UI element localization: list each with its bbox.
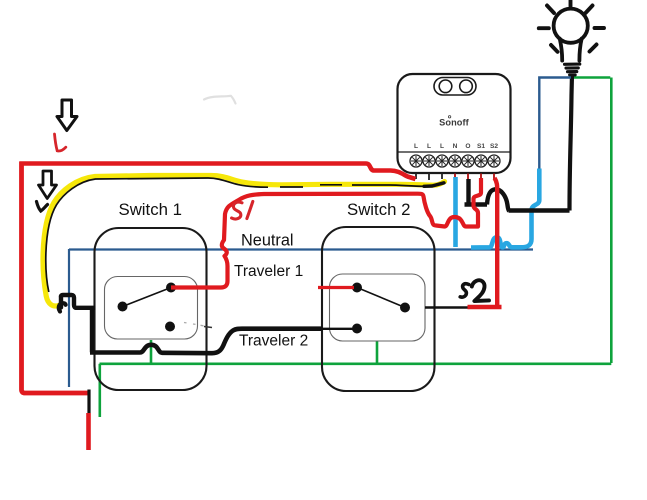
svg-text:Traveler 1: Traveler 1: [234, 263, 303, 280]
wire: black O-output to bulb, vertical from O terminal: [466, 179, 470, 205]
sonoff button circle 1: [439, 80, 452, 93]
wire: red line power border left vertical: [22, 162, 91, 394]
wire: blue neutral run from bulb with hops: [471, 169, 539, 248]
svg-text:L: L: [414, 143, 418, 150]
svg-text:L: L: [427, 143, 431, 150]
switch 2 traveler 1 dot: [352, 283, 362, 293]
arrow pointer 2: [39, 171, 57, 199]
wire: red line power top horizontal to L terminal: [20, 164, 416, 180]
sonoff button circle 2: [460, 80, 473, 93]
svg-text:Switch 1: Switch 1: [119, 200, 182, 219]
wire: neutral bus (navy thin horizontal): [69, 248, 533, 250]
switch box 2 inner plate: [330, 274, 426, 341]
wire: green ground left drop: [99, 364, 102, 417]
wire: black traveler 2 drop: [90, 308, 94, 353]
switch box 1 outer: [95, 228, 207, 390]
wire: red drop bottom left: [86, 413, 91, 450]
switch 2 toggle lever: [357, 288, 405, 308]
wire: yellow line hot with hook: [43, 176, 445, 307]
switch 2 common pole dot: [400, 303, 410, 313]
wire: black tracer along yellow: [46, 178, 268, 292]
wire: red S2 drop from terminal: [495, 178, 498, 306]
switch box 1 inner plate: [105, 277, 198, 340]
wire: black stub bottom left: [87, 390, 90, 414]
wire: switch 2 common to S2 hook (thin black): [425, 306, 468, 308]
wire: black tracer dashes: [280, 185, 342, 187]
sonoff terminal block divider: [399, 151, 511, 153]
wire: black tip of yellow cable: [424, 183, 444, 187]
switch 1 toggle lever: [123, 288, 172, 307]
switch 1 traveler 1 dot: [166, 283, 176, 293]
wire: red S2 hook: [468, 305, 502, 310]
wire: green ground from bulb right: [573, 76, 610, 79]
wire: bulb blue lead (navy thin): [539, 78, 571, 170]
wire: black O-output hop over S2 red: [487, 189, 509, 211]
light bulb icon: [554, 9, 588, 75]
svg-text:Sonoff: Sonoff: [439, 118, 470, 128]
wire: green stub switch 2: [376, 342, 379, 364]
light bulb rays: [539, 1, 604, 52]
switch 1 traveler 2 dot: [165, 322, 175, 332]
svg-text:O: O: [465, 143, 470, 150]
wire: bulb pigtail black down: [570, 74, 573, 211]
svg-text:S2: S2: [490, 143, 498, 150]
sonoff logo degree mark: [448, 116, 450, 118]
wire: red traveler 1 stub into switch 2: [318, 286, 354, 289]
wire: black O-output foot: [465, 202, 488, 206]
wire: red S1 long run from terminal to switch 1: [171, 178, 481, 288]
sonoff terminal pin stubs: [416, 174, 494, 181]
svg-text:Switch 2: Switch 2: [347, 200, 410, 219]
sonoff screw terminals: [410, 155, 500, 167]
red check mark under arrow 1: [55, 134, 66, 151]
black check mark under arrow 2: [37, 202, 48, 212]
svg-text:Traveler 2: Traveler 2: [239, 333, 308, 350]
wire: green ground right vertical: [610, 78, 613, 364]
wire: black traveler 2 run with hop and step: [90, 329, 322, 354]
switch 1 tick on box edge: [204, 327, 212, 328]
switch box 2 outer: [322, 227, 435, 391]
wire: blue neutral drop from N terminal: [453, 177, 458, 247]
sonoff pin labels L L L N O S1 S2: [414, 143, 498, 150]
sonoff screw cross patterns: [411, 156, 499, 166]
wire: black O-output run to bulb pigtail: [509, 208, 570, 212]
wire: green stub switch 1: [150, 340, 153, 364]
switch 1 common pole dot: [118, 302, 128, 312]
wire: black traveler 2 into switch 2: [322, 328, 357, 330]
handwritten S2 label (black): [460, 280, 489, 301]
wire: green ground bottom horizontal: [100, 362, 612, 365]
svg-text:S1: S1: [477, 143, 485, 150]
switch 2 traveler 2 dot: [352, 324, 362, 334]
faint pencil smudge: [204, 96, 236, 104]
sonoff U1 body: [398, 74, 511, 173]
handwritten S1 label (red): [232, 202, 253, 219]
svg-text:L: L: [440, 143, 444, 150]
wire: black traveler 2 from hook over blue into switch 1: [59, 295, 96, 308]
svg-text:N: N: [453, 143, 458, 150]
arrow pointer 1: [57, 100, 77, 131]
switch 1 faint dashes: [184, 323, 204, 326]
svg-text:Neutral: Neutral: [241, 232, 294, 250]
wire: neutral drop left (navy vertical into box 1): [68, 249, 70, 387]
wire: black traveler 2 hook end: [59, 303, 66, 311]
wire: black tracer right segment: [352, 185, 424, 186]
sonoff button pill: [434, 78, 476, 96]
